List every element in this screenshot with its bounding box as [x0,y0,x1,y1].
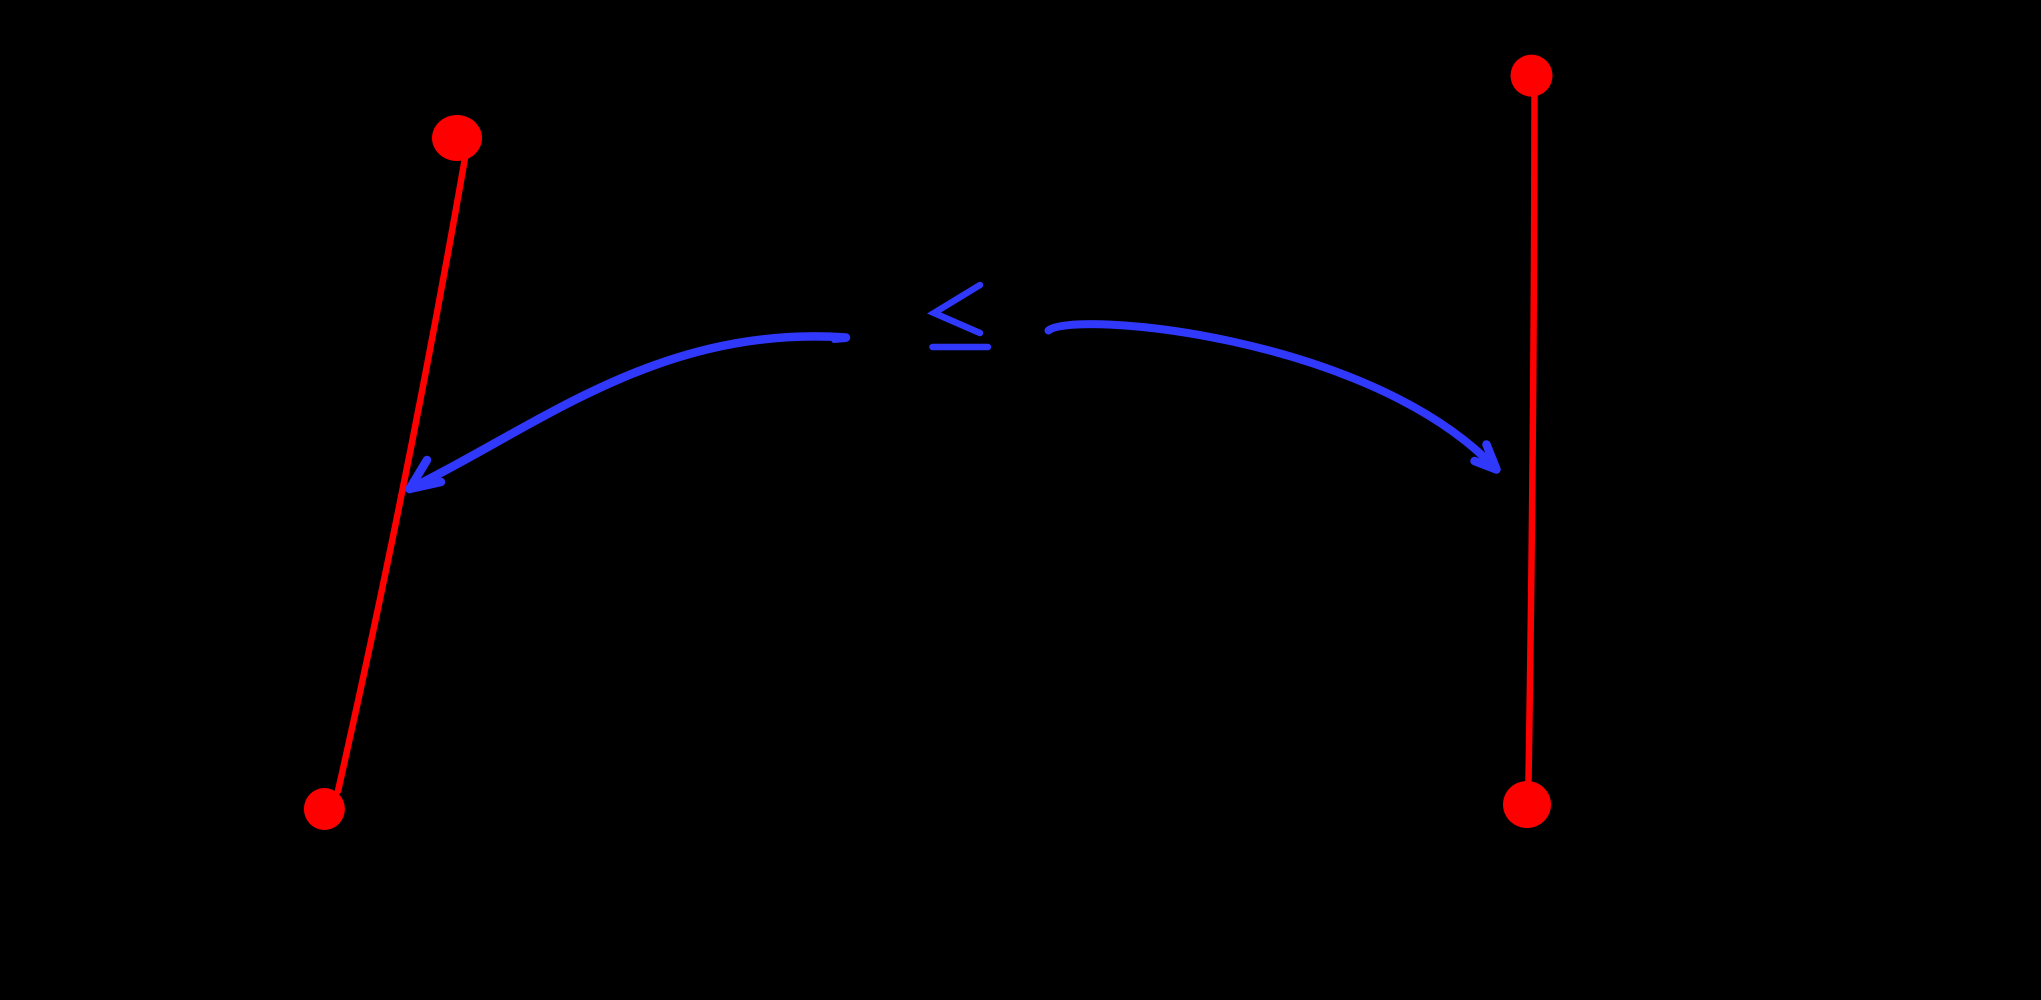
right segment top endpoint dot [1511,55,1553,97]
right red segment [1529,96,1535,781]
left blue arrowhead [410,460,442,489]
left blue arrow curve [410,336,847,489]
less-or-equal symbol [933,285,989,347]
left segment top endpoint dot [432,115,482,161]
right blue arrow curve [1049,324,1497,469]
left red segment [338,158,465,791]
left segment bottom endpoint dot [304,788,345,830]
right segment bottom endpoint dot [1503,781,1551,828]
right blue arrowhead [1475,445,1497,470]
left arrow curve end tail [834,340,846,341]
